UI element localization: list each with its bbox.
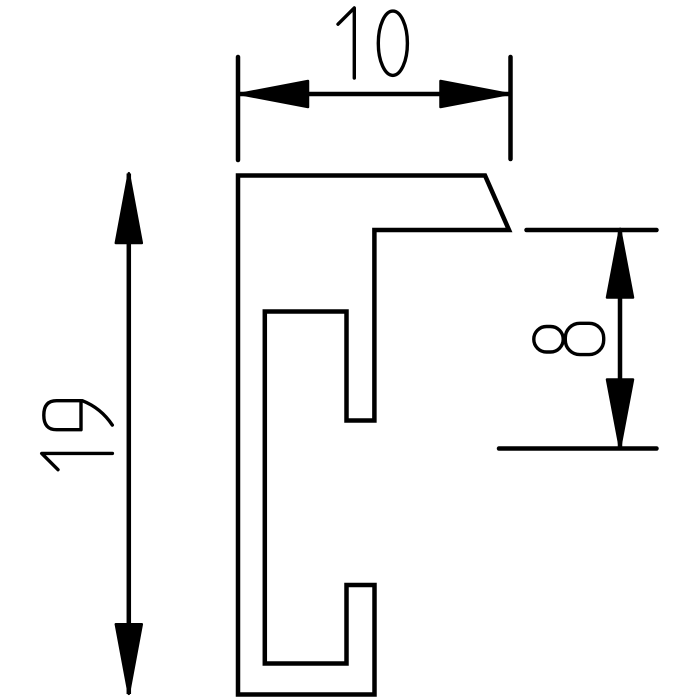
dimension 8: dimension line [618, 229, 623, 448]
dimension 19: text "9" (rotated) [44, 401, 113, 430]
dimension 19: dimension line [127, 174, 132, 695]
dimension 19: text "1" (rotated) [42, 453, 113, 469]
dimension 10: right extension line [508, 57, 513, 159]
dimension 10: dimension line [240, 92, 509, 97]
dimension 8: text "8" (rotated) [534, 323, 604, 354]
dimension 10: right arrowhead [441, 81, 509, 107]
dimension 10: left extension line [236, 57, 241, 160]
dimension 8: bottom extension line [499, 446, 657, 451]
dimension 10: text "1" [338, 8, 354, 78]
frame profile cross-section outline [238, 176, 509, 695]
dimension 8: bottom arrowhead [607, 380, 633, 449]
dimension 8: top extension line [527, 228, 657, 233]
dimension 10: text "0" [378, 11, 407, 75]
dimension 8: top arrowhead [607, 229, 633, 298]
dimension 19: top arrowhead [116, 173, 142, 243]
dimension 19: bottom arrowhead [116, 624, 142, 694]
dimension 10: left arrowhead [240, 81, 308, 107]
